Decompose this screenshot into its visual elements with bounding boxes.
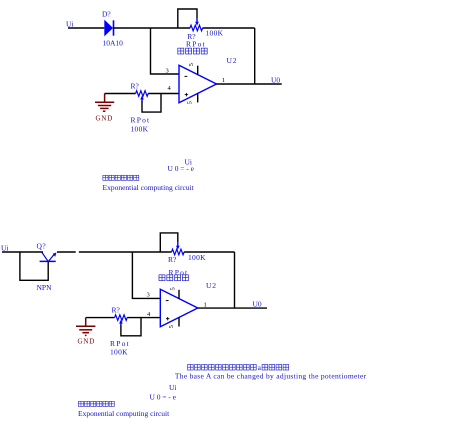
wire emitter segment (57, 251, 76, 253)
diode D? (104, 20, 113, 37)
svg-text:Exponential computing circuit: Exponential computing circuit (78, 409, 170, 418)
wire emitter to pot (79, 251, 172, 253)
svg-text:3: 3 (147, 292, 150, 299)
ground GND (bottom) (76, 318, 95, 336)
svg-text:U0: U0 (253, 300, 262, 309)
wire pot tap loop (bottom offset pot) (121, 318, 141, 336)
wire GND to offset pot (bottom) (86, 317, 115, 319)
wire feedback vertical (bottom) (234, 252, 236, 308)
wire pot to feedback corner (203, 27, 255, 29)
power pin stub bottom (pin 5) (197, 93, 199, 102)
wire output (217, 83, 282, 85)
potentiometer R? 100K (offset) (136, 91, 149, 102)
potentiometer R? 100K (feedback) (190, 18, 203, 31)
op-amp minus mark (185, 75, 188, 77)
svg-text:NPN: NPN (37, 283, 53, 292)
wire pot to pin 4 (bottom) (127, 317, 160, 319)
svg-text:100K: 100K (188, 253, 206, 262)
power pin stub top (bottom op-amp) (178, 290, 180, 299)
svg-text:D?: D? (102, 10, 111, 19)
svg-text:RPot: RPot (186, 40, 206, 49)
svg-text:1: 1 (204, 302, 207, 309)
wire junction down to pin 3 (bottom) (132, 252, 160, 298)
svg-text:GND: GND (78, 338, 96, 346)
svg-text:Ui: Ui (1, 244, 9, 253)
svg-text:5: 5 (168, 325, 175, 328)
svg-text:5: 5 (187, 101, 194, 104)
op-amp U2 (bottom) (160, 289, 198, 327)
op-amp U2 (top) (179, 65, 217, 103)
svg-text:10A10: 10A10 (103, 39, 124, 48)
svg-text:R?: R? (168, 255, 177, 264)
svg-text:U0: U0 (271, 76, 280, 85)
svg-text:Q?: Q? (37, 242, 47, 251)
svg-text:U0=-e: U0=-e (168, 164, 196, 173)
svg-text:3: 3 (166, 68, 169, 75)
op-amp plus mark (bottom) (166, 317, 169, 320)
svg-text:Ui: Ui (169, 383, 177, 392)
svg-text:RPot: RPot (131, 116, 151, 125)
wire output (bottom) (198, 307, 267, 309)
wire feedback vertical (254, 28, 256, 84)
svg-text:Ui: Ui (66, 20, 74, 29)
svg-text:5: 5 (188, 63, 195, 66)
wire pot tap loop (offset pot) (142, 94, 161, 113)
svg-text:100K: 100K (131, 125, 149, 134)
wire diode to pot R? (114, 27, 191, 29)
label 指数计算电路 (bottom) (78, 401, 114, 406)
wire pot tap loop (feedback pot) (178, 9, 197, 28)
svg-text:The base A can be changed by a: The base A can be changed by adjusting t… (175, 371, 367, 380)
svg-text:R?: R? (131, 82, 140, 91)
wire input Ui to diode (68, 27, 104, 29)
transistor Q? NPN (40, 252, 57, 261)
wire pot to feedback corner (bottom) (184, 251, 234, 253)
label 集成运放 (178, 48, 207, 54)
svg-text:Exponential computing circuit: Exponential computing circuit (103, 183, 195, 192)
label 集成运放 (bottom) (159, 275, 188, 281)
power pin stub bottom (bottom op-amp) (178, 318, 180, 327)
label 指数计算电路 (top) (103, 175, 139, 180)
svg-text:5: 5 (169, 287, 176, 290)
wire input Ui (2, 251, 43, 253)
svg-text:1: 1 (222, 77, 225, 84)
svg-text:100K: 100K (206, 29, 224, 38)
wire junction down to pin 3 (151, 28, 180, 74)
power pin stub top (pin 5) (197, 66, 199, 75)
label 调节电位器可以使底数a发生变化 (188, 363, 289, 372)
svg-text:U2: U2 (206, 281, 217, 290)
ground GND (top) (95, 94, 114, 112)
wire base loop (20, 252, 48, 280)
potentiometer R? 100K (bottom feedback) (172, 242, 185, 255)
svg-text:GND: GND (96, 115, 114, 123)
svg-text:U0=-e: U0=-e (150, 393, 178, 402)
op-amp plus mark (185, 93, 188, 96)
svg-text:100K: 100K (110, 348, 128, 357)
potentiometer R? 100K (bottom offset) (115, 315, 128, 326)
wire GND to offset pot (105, 93, 136, 95)
wire pot to pin 4 (148, 93, 179, 95)
op-amp minus mark (bottom) (166, 300, 169, 302)
wire pot tap loop (bottom feedback pot) (160, 233, 178, 252)
svg-text:U2: U2 (227, 56, 238, 65)
svg-text:R?: R? (112, 306, 121, 315)
